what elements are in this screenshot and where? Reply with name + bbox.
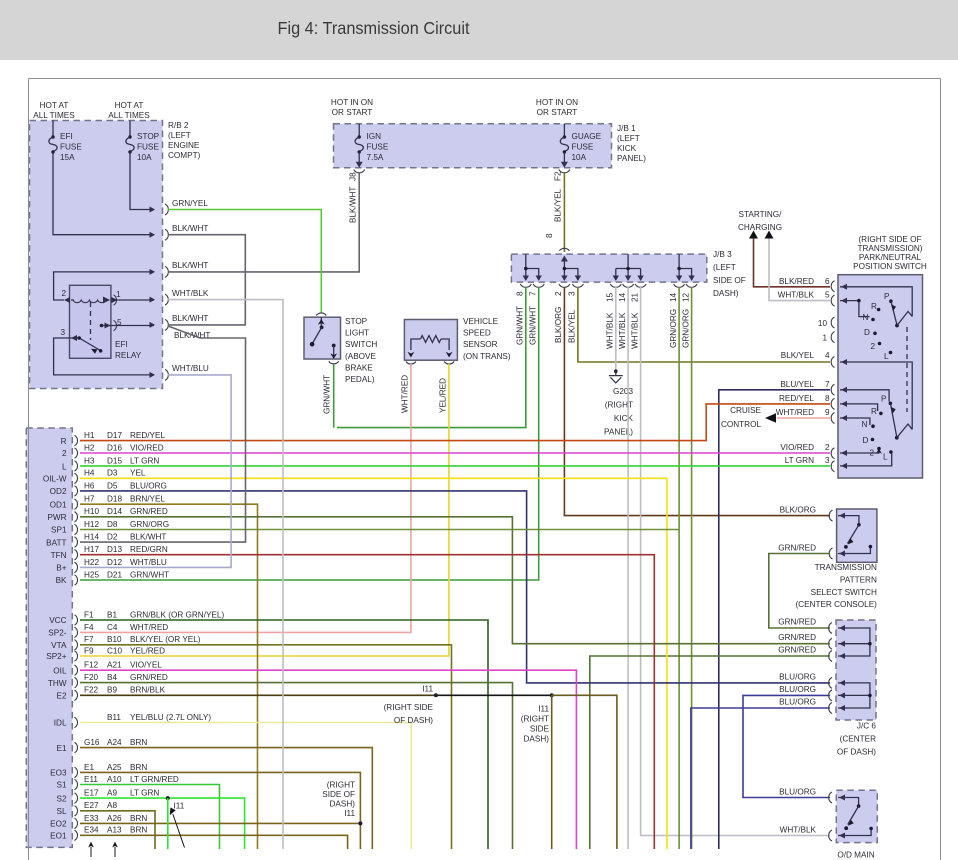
svg-text:J8: J8 <box>349 172 358 181</box>
wire GRN/ORG <box>80 529 679 531</box>
svg-text:WHT/BLK: WHT/BLK <box>631 312 640 349</box>
svg-text:D13: D13 <box>107 545 122 554</box>
svg-text:2: 2 <box>871 342 876 351</box>
svg-text:SL: SL <box>56 807 66 816</box>
relay coil with arrows <box>64 297 70 303</box>
wire RED/GRN <box>80 555 654 849</box>
wire BRN <box>80 835 348 849</box>
fuse STOP FUSE 10A <box>129 121 131 137</box>
svg-text:3: 3 <box>60 328 65 337</box>
svg-text:21: 21 <box>631 292 640 302</box>
svg-text:(LEFT: (LEFT <box>713 263 736 272</box>
svg-text:EFI: EFI <box>60 132 73 141</box>
svg-text:LT GRN/RED: LT GRN/RED <box>130 775 179 784</box>
junction block J/B 3 <box>511 254 706 282</box>
svg-text:D16: D16 <box>107 443 122 452</box>
svg-text:WHT/BLK: WHT/BLK <box>172 289 209 298</box>
wire WHT/BLK pin14 drop <box>627 287 629 849</box>
svg-text:7.5A: 7.5A <box>367 153 384 162</box>
svg-text:I11: I11 <box>344 809 355 818</box>
wire A8 <box>80 811 155 849</box>
svg-text:E1: E1 <box>56 744 66 753</box>
svg-text:R: R <box>871 302 877 311</box>
wire WHT/RED pin9 to cruise <box>777 417 830 419</box>
wire GRN/RED pattern switch to J/C6 pin1 <box>769 554 830 629</box>
svg-text:1: 1 <box>116 290 121 299</box>
svg-text:GRN/RED: GRN/RED <box>130 507 168 516</box>
svg-text:YEL: YEL <box>130 469 146 478</box>
svg-text:GUAGE: GUAGE <box>572 132 602 141</box>
wire BLU/ORG J/C6 pin2 to O/D MAIN <box>743 695 830 797</box>
wire BRN <box>80 748 372 849</box>
svg-text:VTA: VTA <box>51 641 67 650</box>
svg-text:THW: THW <box>48 679 67 688</box>
svg-text:H10: H10 <box>84 507 99 516</box>
svg-text:C10: C10 <box>107 646 122 655</box>
svg-text:4: 4 <box>825 351 830 360</box>
J/B3 internal bus pins 14,12 <box>679 254 692 280</box>
svg-text:7: 7 <box>529 291 538 296</box>
svg-text:E17: E17 <box>84 789 99 798</box>
svg-text:CRUISE: CRUISE <box>730 406 761 415</box>
svg-text:BLU/YEL: BLU/YEL <box>780 380 814 389</box>
svg-text:14: 14 <box>618 292 627 302</box>
wire BRN/BLK I11 black segment <box>436 694 552 696</box>
svg-text:GRN/ORG: GRN/ORG <box>130 520 169 529</box>
svg-text:A21: A21 <box>107 661 122 670</box>
wire S2 I11 drop <box>167 798 169 849</box>
svg-text:R/B 2: R/B 2 <box>168 121 189 130</box>
svg-text:I11: I11 <box>538 705 549 714</box>
svg-text:D21: D21 <box>107 570 122 579</box>
stop light switch <box>304 317 341 359</box>
wire BRN/YEL <box>80 504 258 849</box>
svg-text:ALL TIMES: ALL TIMES <box>108 111 150 120</box>
svg-text:GRN/WHT: GRN/WHT <box>529 306 538 345</box>
svg-text:OR START: OR START <box>537 108 578 117</box>
svg-text:S1: S1 <box>56 781 66 790</box>
svg-text:P: P <box>884 292 890 301</box>
wire YEL/BLU <box>80 723 411 850</box>
svg-text:H4: H4 <box>84 469 95 478</box>
svg-text:2: 2 <box>62 449 67 458</box>
svg-text:YEL/RED: YEL/RED <box>130 646 165 655</box>
svg-text:RED/GRN: RED/GRN <box>130 545 168 554</box>
svg-text:EO3: EO3 <box>50 769 67 778</box>
svg-text:BLK/RED: BLK/RED <box>779 277 814 286</box>
svg-text:H7: H7 <box>84 495 95 504</box>
svg-text:WHT/BLK: WHT/BLK <box>780 826 817 835</box>
svg-text:ALL TIMES: ALL TIMES <box>33 111 75 120</box>
wire BLK/YEL guage fuse drop to J/B3 <box>563 172 565 252</box>
wire BLU/ORG <box>80 491 830 683</box>
R/B2 exit arcs <box>165 204 168 215</box>
svg-text:(CENTER CONSOLE): (CENTER CONSOLE) <box>795 600 877 609</box>
svg-text:(ON TRANS): (ON TRANS) <box>463 352 511 361</box>
svg-text:2: 2 <box>554 291 563 296</box>
svg-text:IDL: IDL <box>54 719 67 728</box>
svg-text:SP1: SP1 <box>51 526 67 535</box>
svg-text:BLU/ORG: BLU/ORG <box>130 481 167 490</box>
wire GRN/BLK (OR GRN/YEL) <box>80 620 488 849</box>
svg-text:BLU/ORG: BLU/ORG <box>779 685 816 694</box>
svg-text:N: N <box>863 313 869 322</box>
J/B3 internal bus pins 15,14,21 <box>616 254 641 280</box>
svg-text:S2: S2 <box>56 794 66 803</box>
svg-text:E2: E2 <box>56 692 66 701</box>
svg-text:WHT/BLK: WHT/BLK <box>618 312 627 349</box>
svg-text:WHT/RED: WHT/RED <box>130 623 168 632</box>
wire BLK/WHT <box>80 326 246 542</box>
wire BLK/YEL pin3 drop to P/N pin4 <box>578 287 830 362</box>
svg-text:DASH): DASH) <box>713 289 739 298</box>
EFI relay box <box>70 285 111 358</box>
svg-text:BLK/WHT: BLK/WHT <box>172 224 208 233</box>
svg-text:PARK/NEUTRAL: PARK/NEUTRAL <box>859 253 922 262</box>
P/N pin4 wire internal <box>840 362 912 430</box>
svg-text:(ABOVE: (ABOVE <box>345 352 376 361</box>
svg-text:BLK/ORG: BLK/ORG <box>780 506 816 515</box>
svg-text:OD1: OD1 <box>50 500 67 509</box>
svg-text:TRANSMISSION): TRANSMISSION) <box>857 244 922 253</box>
wire WHT/RED VSS to row14 <box>80 364 411 632</box>
svg-text:H14: H14 <box>84 533 99 542</box>
wire VIO/RED pin2 to row2 <box>80 452 830 454</box>
svg-text:GRN/RED: GRN/RED <box>130 673 168 682</box>
P/N lower switch internals <box>840 390 889 402</box>
svg-text:12: 12 <box>682 292 691 302</box>
svg-text:D2: D2 <box>107 533 118 542</box>
svg-text:FUSE: FUSE <box>367 143 389 152</box>
svg-text:(2.7L ONLY): (2.7L ONLY) <box>166 713 211 722</box>
svg-text:RED/YEL: RED/YEL <box>130 431 165 440</box>
svg-text:A25: A25 <box>107 763 122 772</box>
svg-text:D14: D14 <box>107 507 122 516</box>
svg-text:B11: B11 <box>107 713 121 722</box>
svg-text:GRN/BLK (OR GRN/YEL): GRN/BLK (OR GRN/YEL) <box>130 610 224 619</box>
wire GRN/RED <box>80 517 830 644</box>
wire BRN <box>80 822 360 824</box>
svg-text:DASH): DASH) <box>524 735 550 744</box>
svg-text:WHT/BLU: WHT/BLU <box>172 364 209 373</box>
wire YEL/RED VSS to row16 <box>80 364 449 656</box>
svg-text:GRN/RED: GRN/RED <box>778 618 816 627</box>
svg-text:EFI: EFI <box>115 340 128 349</box>
node I11 dot3 on EO3 drop <box>358 821 362 825</box>
wire BLK/YEL (OR YEL) <box>80 645 452 849</box>
wire BLK/ORG pin2 drop to pattern switch <box>564 287 830 516</box>
svg-text:GRN/RED: GRN/RED <box>778 633 816 642</box>
svg-text:(LEFT: (LEFT <box>168 131 191 140</box>
svg-text:6: 6 <box>825 277 830 286</box>
svg-text:BLK/YEL: BLK/YEL <box>781 351 815 360</box>
svg-text:G203: G203 <box>613 387 633 396</box>
svg-text:N: N <box>862 420 868 429</box>
svg-text:9: 9 <box>825 408 830 417</box>
svg-text:D12: D12 <box>107 558 122 567</box>
svg-text:GRN/WHT: GRN/WHT <box>130 570 169 579</box>
svg-text:D5: D5 <box>107 481 118 490</box>
svg-text:OR START: OR START <box>332 108 373 117</box>
resistor inside VSS <box>411 339 449 350</box>
P/N pin3 wire internal <box>840 454 892 466</box>
J/B3 bottom pin arcs <box>520 284 531 287</box>
svg-text:RED/YEL: RED/YEL <box>779 394 814 403</box>
P/N upper switch internals <box>840 287 912 317</box>
node I11 dot2 with brown continuation <box>550 693 554 697</box>
ground G203 <box>614 369 618 373</box>
svg-text:15: 15 <box>606 292 615 302</box>
wire efi fuse to BLK/WHT exit <box>53 152 154 235</box>
svg-text:BRN/BLK: BRN/BLK <box>130 686 166 695</box>
svg-text:TRANSMISSION: TRANSMISSION <box>815 563 877 572</box>
wire LT GRN pin3 to row3 <box>80 465 830 467</box>
svg-text:SIDE OF: SIDE OF <box>322 790 355 799</box>
P/N pin arcs <box>831 281 834 292</box>
svg-text:(RIGHT: (RIGHT <box>521 715 549 724</box>
svg-text:D8: D8 <box>107 520 118 529</box>
svg-text:E27: E27 <box>84 801 99 810</box>
svg-text:STARTING/: STARTING/ <box>739 210 783 219</box>
svg-text:WHT/BLK: WHT/BLK <box>606 312 615 349</box>
svg-text:STOP: STOP <box>345 317 368 326</box>
svg-text:5: 5 <box>825 291 830 300</box>
wire BLU/YEL pin7 <box>719 390 830 849</box>
svg-text:D: D <box>863 436 869 445</box>
svg-text:B4: B4 <box>107 673 117 682</box>
svg-text:LT GRN: LT GRN <box>130 789 159 798</box>
wire WHT/BLK to P/N pin5 <box>769 239 830 301</box>
svg-text:RELAY: RELAY <box>115 351 142 360</box>
svg-text:WHT/RED: WHT/RED <box>401 375 410 413</box>
svg-text:F1: F1 <box>84 610 94 619</box>
J/B3 internal bus pins 2,3 <box>564 261 578 280</box>
svg-text:WHT/BLK: WHT/BLK <box>778 291 815 300</box>
svg-text:KICK: KICK <box>614 414 634 423</box>
svg-text:C4: C4 <box>107 623 118 632</box>
svg-text:8: 8 <box>516 291 525 296</box>
wire LT GRN/RED <box>80 785 220 850</box>
O/D main switch <box>836 790 877 842</box>
svg-text:BATT: BATT <box>46 538 66 547</box>
svg-text:BRN: BRN <box>130 763 147 772</box>
svg-text:PWR: PWR <box>47 513 66 522</box>
svg-text:I11: I11 <box>174 802 185 811</box>
svg-text:8: 8 <box>825 394 830 403</box>
svg-text:HOT IN ON: HOT IN ON <box>536 98 578 107</box>
svg-text:BRN/YEL: BRN/YEL <box>130 495 165 504</box>
svg-text:L: L <box>62 463 67 472</box>
svg-text:STOP: STOP <box>137 132 160 141</box>
J/C6 internal bracket GRN/RED <box>838 628 870 656</box>
relay pin1 to WHT/BLK exit <box>111 299 154 301</box>
svg-text:H1: H1 <box>84 431 95 440</box>
svg-text:E11: E11 <box>84 775 98 784</box>
svg-text:Fig 4: Transmission Circuit: Fig 4: Transmission Circuit <box>278 18 470 38</box>
svg-text:G16: G16 <box>84 738 100 747</box>
wire WHT/BLK pin15 drop to ground <box>615 287 617 370</box>
svg-text:14: 14 <box>669 292 678 302</box>
wire GRN/WHT stop light switch to J/B3 pin8 <box>333 364 335 428</box>
svg-text:H25: H25 <box>84 570 99 579</box>
wire YEL <box>80 478 667 849</box>
wire RED/YEL pin8 to row1 <box>80 404 830 441</box>
wire WHT/BLK pin21 drop to O/D MAIN <box>641 287 830 836</box>
svg-text:J/C 6: J/C 6 <box>857 721 877 730</box>
svg-text:H22: H22 <box>84 558 99 567</box>
svg-text:SWITCH: SWITCH <box>345 340 377 349</box>
svg-text:OD2: OD2 <box>50 487 67 496</box>
svg-text:(CENTER: (CENTER <box>840 734 876 743</box>
svg-text:E34: E34 <box>84 826 99 835</box>
junction block R/B 2 <box>30 121 163 389</box>
svg-text:VEHICLE: VEHICLE <box>463 317 499 326</box>
svg-text:F22: F22 <box>84 686 99 695</box>
svg-text:BLK/YEL: BLK/YEL <box>568 309 577 343</box>
svg-text:R: R <box>61 437 67 446</box>
svg-text:BRN: BRN <box>130 814 147 823</box>
J/C6 internal bracket BLU/ORG <box>838 683 870 708</box>
svg-text:GRN/ORG: GRN/ORG <box>682 309 691 348</box>
svg-text:F9: F9 <box>84 646 94 655</box>
svg-text:B+: B+ <box>56 564 66 573</box>
svg-text:15A: 15A <box>60 153 75 162</box>
svg-text:LT GRN: LT GRN <box>785 456 814 465</box>
svg-text:A26: A26 <box>107 814 122 823</box>
svg-text:IGN: IGN <box>367 132 382 141</box>
svg-text:O/D MAIN: O/D MAIN <box>837 851 874 860</box>
wire BLK/WHT ign fuse drop to R/B2 <box>168 172 359 272</box>
svg-text:H12: H12 <box>84 520 99 529</box>
svg-text:OIL: OIL <box>53 666 67 675</box>
svg-text:BLK/WHT: BLK/WHT <box>172 261 208 270</box>
svg-text:D18: D18 <box>107 495 122 504</box>
svg-text:H17: H17 <box>84 545 99 554</box>
svg-text:R: R <box>871 407 877 416</box>
svg-text:SELECT SWITCH: SELECT SWITCH <box>811 588 877 597</box>
wire stop fuse to GRN/YEL exit <box>130 152 154 210</box>
I11 callout arrow <box>173 814 185 848</box>
svg-text:F4: F4 <box>84 623 94 632</box>
svg-text:B9: B9 <box>107 686 117 695</box>
svg-text:VCC: VCC <box>49 616 66 625</box>
svg-text:L: L <box>883 453 888 462</box>
node I11 dot on S2 row <box>166 796 170 800</box>
EO1 bottom entry arrows <box>91 847 115 857</box>
svg-text:EO1: EO1 <box>50 832 67 841</box>
wire GRN/RED <box>80 683 513 849</box>
svg-text:BK: BK <box>56 576 67 585</box>
wire GRN/ORG pin12 drop <box>691 287 693 849</box>
svg-text:H2: H2 <box>84 443 95 452</box>
svg-text:A24: A24 <box>107 738 122 747</box>
svg-text:B1: B1 <box>107 610 117 619</box>
relay pin5 contact and exit <box>100 324 104 328</box>
svg-text:A13: A13 <box>107 826 122 835</box>
fuse IGN FUSE 7.5A <box>358 124 360 136</box>
title bar <box>0 0 958 60</box>
svg-text:CONTROL: CONTROL <box>721 420 761 429</box>
svg-text:3: 3 <box>568 291 577 296</box>
svg-text:8: 8 <box>545 233 554 238</box>
svg-text:I11: I11 <box>422 685 433 694</box>
junction block J/B 1 <box>334 124 612 168</box>
svg-text:1: 1 <box>822 334 827 343</box>
svg-text:BLU/ORG: BLU/ORG <box>779 788 816 797</box>
svg-text:7: 7 <box>825 380 830 389</box>
svg-text:SP2-: SP2- <box>48 629 66 638</box>
svg-text:E33: E33 <box>84 814 99 823</box>
svg-text:FUSE: FUSE <box>137 143 159 152</box>
svg-text:OF DASH): OF DASH) <box>394 716 433 725</box>
wire LT GRN <box>80 798 245 849</box>
svg-text:LT GRN: LT GRN <box>130 456 159 465</box>
svg-text:GRN/RED: GRN/RED <box>778 646 816 655</box>
wire BLK/RED to P/N pin6 <box>754 239 831 287</box>
svg-text:BLK/WHT: BLK/WHT <box>172 314 208 323</box>
svg-text:A8: A8 <box>107 801 117 810</box>
svg-text:HOT AT: HOT AT <box>115 101 144 110</box>
svg-text:E1: E1 <box>84 763 94 772</box>
svg-text:OF DASH): OF DASH) <box>837 747 876 756</box>
svg-text:PEDAL): PEDAL) <box>345 375 375 384</box>
wire I11 dot2 drop <box>551 695 553 849</box>
svg-text:BLK/YEL (OR YEL): BLK/YEL (OR YEL) <box>130 635 201 644</box>
wire BRN <box>80 772 360 849</box>
svg-text:(RIGHT SIDE: (RIGHT SIDE <box>384 703 434 712</box>
P/N mechanical dashed link <box>906 327 908 412</box>
svg-text:2: 2 <box>825 443 830 452</box>
svg-text:10A: 10A <box>572 153 587 162</box>
wire BLK/WHT exit2 bridge <box>168 235 245 325</box>
svg-text:PANEL): PANEL) <box>617 154 646 163</box>
svg-text:TFN: TFN <box>51 551 67 560</box>
svg-text:YEL/BLU: YEL/BLU <box>130 713 164 722</box>
P/N pin2 wire internal <box>840 450 879 454</box>
svg-text:BLK/WHT: BLK/WHT <box>130 533 166 542</box>
stop light switch top arc <box>316 313 326 316</box>
svg-text:HOT IN ON: HOT IN ON <box>331 98 373 107</box>
relay pin3 rail to WHT/BLU exit <box>54 338 154 375</box>
svg-text:BRN: BRN <box>130 738 147 747</box>
svg-text:COMPT): COMPT) <box>168 151 201 160</box>
svg-text:SPEED: SPEED <box>463 329 491 338</box>
svg-text:F12: F12 <box>84 661 99 670</box>
svg-text:D17: D17 <box>107 431 122 440</box>
svg-text:GRN/WHT: GRN/WHT <box>323 375 332 414</box>
svg-text:VIO/RED: VIO/RED <box>780 443 814 452</box>
vehicle speed sensor <box>404 320 457 361</box>
svg-text:BRAKE: BRAKE <box>345 363 373 372</box>
svg-text:A9: A9 <box>107 789 117 798</box>
relay dashed link <box>90 302 92 340</box>
wire GRN/ORG pin14 drop <box>678 287 680 849</box>
svg-text:10: 10 <box>818 319 828 328</box>
svg-text:10A: 10A <box>137 153 152 162</box>
svg-text:J/B 1: J/B 1 <box>617 124 636 133</box>
svg-text:OIL-W: OIL-W <box>43 475 67 484</box>
svg-text:VIO/YEL: VIO/YEL <box>130 661 162 670</box>
svg-text:SP2+: SP2+ <box>46 652 66 661</box>
svg-text:J/B 3: J/B 3 <box>713 250 732 259</box>
ECM connector block <box>26 428 72 847</box>
svg-text:WHT/BLU: WHT/BLU <box>130 558 167 567</box>
svg-text:L: L <box>884 352 889 361</box>
svg-text:D3: D3 <box>107 469 118 478</box>
J/B3 internal bus pins 8,7 <box>526 254 539 280</box>
svg-text:H3: H3 <box>84 456 95 465</box>
svg-text:CHARGING: CHARGING <box>738 223 782 232</box>
